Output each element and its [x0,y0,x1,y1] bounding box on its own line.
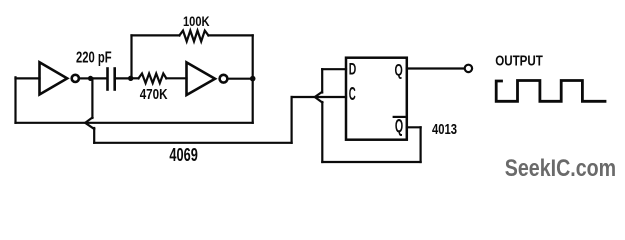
svg-text:OUTPUT: OUTPUT [495,53,543,69]
wire outer feedback horizontal (inv2 output to inv1 input) [16,122,253,124]
svg-text:4013: 4013 [432,122,457,138]
wire inverter2 output to node C [228,78,253,80]
svg-text:D: D [349,60,357,79]
wire rail right segment [208,34,252,36]
wire crossover jog at D feedback [315,92,323,103]
resistor R1 100K zigzag [179,31,208,42]
Qbar overbar [394,116,405,118]
wire Qbar pin stub [407,126,421,128]
svg-text:SeekIC.com: SeekIC.com [505,155,616,182]
wire crossover jog at outer feedback [85,118,94,130]
wire clock into C pin [292,96,346,98]
wire clock vertical up [291,97,293,143]
wire clock horizontal 4069 output line [94,142,291,144]
wire D feedback vertical upper [321,69,323,92]
wire D feedback vertical lower [321,102,323,162]
capacitor C1 220 pF plates [108,69,115,90]
wire Q output [407,67,465,69]
wire Qbar feedback right vertical [420,127,422,162]
wire D pin stub [322,68,346,70]
svg-text:4069: 4069 [169,144,197,165]
wire 470K to inverter2 input [166,77,186,79]
node C junction dot [250,76,256,82]
svg-text:Q: Q [395,116,403,136]
wire inverter1 input stub [16,77,40,79]
wire left feedback vertical [14,77,16,123]
wire D feedback bottom horizontal [322,161,420,163]
wire right vertical rail down to node C and outer feedback [252,35,254,122]
waveform square wave [496,81,605,102]
wire capacitor to node B [116,77,131,79]
svg-text:C: C [349,84,356,104]
svg-text:470K: 470K [140,86,168,103]
wire node A down to clock line (upper) [91,78,93,118]
output terminal circle [465,65,472,72]
inverter U1A [40,62,79,94]
wire inverter1 output to node A [79,77,91,79]
inverter U1B [187,62,228,95]
flip-flop U2 4013 body [346,58,407,140]
svg-text:100K: 100K [183,14,210,29]
svg-text:220 pF: 220 pF [76,50,112,67]
resistor R2 470K zigzag [139,74,167,84]
node B junction dot [128,76,133,81]
node A junction dot [88,76,93,81]
wire node B up to 100K rail [130,35,132,78]
wire node A down to clock line (lower) [93,128,95,143]
svg-text:Q: Q [395,61,403,80]
wire node B to 470K [131,77,139,79]
wire node A to capacitor [91,77,107,79]
wire rail left segment [132,34,180,36]
